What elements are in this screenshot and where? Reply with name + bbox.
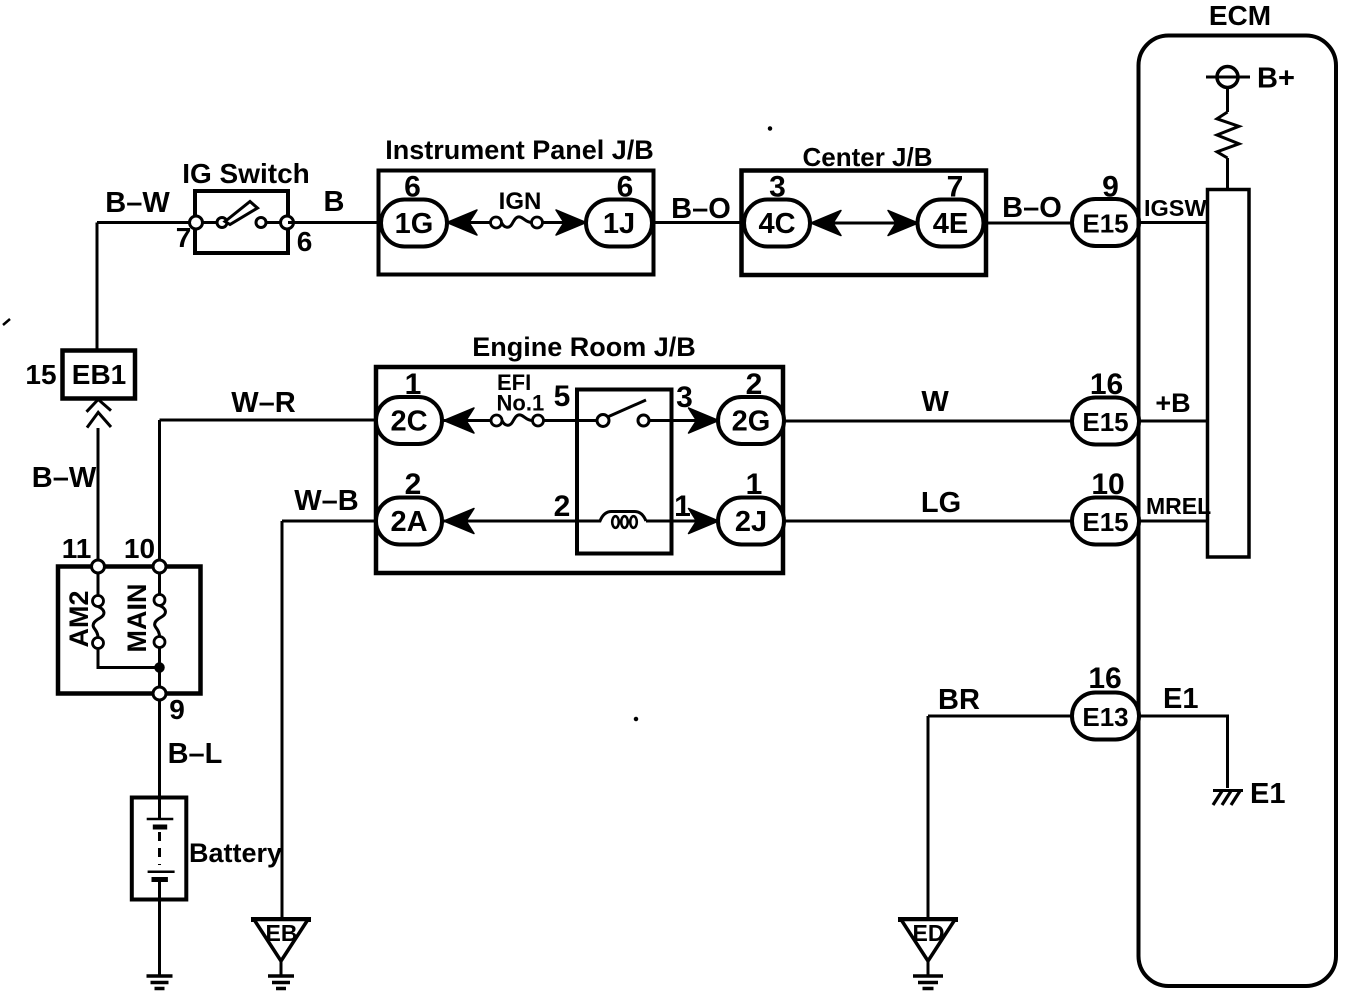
wire W-R horizontal [160, 419, 383, 422]
svg-text:LG: LG [921, 487, 961, 519]
ground below ED [913, 976, 943, 989]
wire 1G to IGN fuse [446, 221, 492, 224]
relay coil [577, 512, 646, 528]
wire fuse to relay [544, 419, 598, 422]
label 15 [25, 359, 56, 390]
relay switch contact left [597, 415, 609, 427]
wire 4C to 4E [808, 222, 920, 225]
wire B-O from Center J/B to E15 [985, 222, 1074, 225]
label B-O [671, 193, 731, 225]
label Engine Room J/B [472, 332, 696, 362]
junction dot [155, 663, 164, 672]
IG switch terminal 7 node [190, 216, 203, 229]
svg-text:BR: BR [938, 684, 980, 716]
label pin 16 [1090, 368, 1123, 401]
svg-text:B–W: B–W [105, 187, 170, 219]
IG switch contact right [256, 218, 266, 228]
label pin 1 above 2J [746, 468, 763, 501]
wire vertical from B-W corner down to EB1 [96, 223, 99, 351]
label pin 10 [1091, 468, 1124, 501]
IG switch box [195, 191, 288, 253]
label Instrument Panel J/B [385, 135, 654, 165]
svg-text:2J: 2J [735, 506, 767, 538]
fuse EFI No.1 [491, 415, 544, 426]
label pin 7 above 4E [947, 171, 964, 204]
wire W to E15 [783, 420, 1074, 423]
wire +B pin [1139, 420, 1208, 423]
wire B-W horizontal to IG switch [97, 221, 196, 224]
connector 2C [376, 397, 492, 444]
wire MREL pin [1139, 520, 1208, 523]
Engine Room J/B box [376, 367, 783, 573]
label LG [921, 487, 961, 519]
node 11 [92, 560, 105, 573]
svg-text:10: 10 [1091, 468, 1124, 501]
svg-text:9: 9 [169, 694, 185, 725]
wire through IG switch [196, 221, 288, 224]
label BR [938, 684, 980, 716]
connector EB1 [63, 351, 136, 399]
svg-text:No.1: No.1 [497, 391, 545, 416]
svg-text:4E: 4E [933, 208, 968, 240]
svg-text:6: 6 [617, 171, 634, 204]
IG switch terminal 6 node [281, 216, 294, 229]
connector 2G [718, 397, 784, 444]
wire battery to ground [158, 880, 161, 976]
wire node 9 to battery [158, 700, 161, 798]
battery terminal B+ [1206, 67, 1250, 88]
wire resistor to pin strip [1226, 158, 1229, 190]
svg-text:B–L: B–L [168, 738, 223, 770]
label 10 [124, 533, 155, 564]
label B [324, 186, 345, 218]
svg-text:E15: E15 [1082, 507, 1128, 537]
wire IGSW pin [1138, 221, 1208, 224]
svg-text:1: 1 [674, 490, 691, 523]
label 1 at relay [674, 490, 691, 523]
svg-text:W–B: W–B [294, 485, 358, 517]
svg-text:6: 6 [297, 226, 313, 257]
fuse AM2 [93, 573, 156, 668]
svg-text:Instrument Panel J/B: Instrument Panel J/B [385, 135, 654, 165]
scan speck bottom middle [635, 718, 638, 721]
ground ED triangle [898, 920, 958, 962]
svg-text:MREL: MREL [1146, 493, 1211, 519]
svg-text:1: 1 [746, 468, 763, 501]
connector E15 pin 10 [1072, 498, 1139, 545]
arrow into 2J [689, 509, 719, 534]
wire B-O from Instrument Panel to Center J/B [653, 221, 742, 224]
connector E15 pin 9 [1072, 199, 1139, 246]
svg-text:W: W [921, 386, 949, 418]
label IGN [499, 188, 542, 215]
svg-text:16: 16 [1088, 662, 1121, 695]
label pin 6 above 1J [617, 171, 634, 204]
svg-text:E1: E1 [1250, 778, 1285, 810]
svg-text:4C: 4C [758, 208, 795, 240]
svg-text:7: 7 [947, 171, 964, 204]
svg-text:7: 7 [176, 222, 192, 253]
wire 2A to relay [441, 520, 577, 523]
fuse MAIN [154, 573, 165, 687]
connector 4C [744, 200, 810, 247]
label B-L [168, 738, 223, 770]
svg-text:5: 5 [554, 380, 571, 413]
svg-text:IGSW: IGSW [1144, 195, 1207, 221]
svg-text:6: 6 [404, 171, 421, 204]
resistor inside ECM [1217, 112, 1239, 158]
label W [921, 386, 949, 418]
arrow into 1J [556, 210, 586, 235]
wire E1 inside ECM [1139, 716, 1228, 788]
svg-text:IG Switch: IG Switch [182, 158, 310, 189]
label pin 9 [1102, 171, 1119, 204]
svg-text:AM2: AM2 [64, 590, 94, 647]
label EFI [497, 370, 531, 395]
label pin 3 above 4C [769, 171, 786, 204]
label MREL [1146, 493, 1211, 519]
label IG Switch [182, 158, 310, 189]
label W-R [231, 387, 296, 419]
wire IGN fuse to 1J [542, 221, 588, 224]
svg-text:2: 2 [746, 368, 763, 401]
connector 2A [376, 498, 442, 545]
scan speck top middle [769, 127, 772, 130]
svg-text:E1: E1 [1163, 683, 1198, 715]
arrow into 2C [444, 408, 474, 433]
node 9 [153, 687, 166, 700]
label B-W [32, 462, 97, 494]
svg-text:Battery: Battery [189, 838, 282, 868]
wire BR vertical to ED ground [927, 716, 930, 920]
svg-text:1J: 1J [603, 208, 635, 240]
ground EB triangle [251, 920, 311, 962]
svg-text:E13: E13 [1082, 702, 1128, 732]
svg-text:+B: +B [1155, 388, 1190, 418]
relay box [577, 390, 672, 554]
label pin 6 [297, 226, 313, 257]
label B-W [105, 187, 170, 219]
svg-text:E15: E15 [1082, 209, 1128, 239]
connector 4E [918, 200, 984, 247]
label pin 7 [176, 222, 192, 253]
Center J/B box [742, 171, 987, 276]
label pin 6 above 1G [404, 171, 421, 204]
svg-text:B–O: B–O [671, 193, 731, 225]
svg-text:B+: B+ [1257, 63, 1295, 95]
svg-text:16: 16 [1090, 368, 1123, 401]
svg-text:E15: E15 [1082, 407, 1128, 437]
svg-text:B–W: B–W [32, 462, 97, 494]
svg-text:IGN: IGN [499, 188, 542, 215]
label E1 [1163, 683, 1198, 715]
wire W-B vertical down to EB ground [281, 521, 284, 920]
svg-text:MAIN: MAIN [122, 584, 152, 653]
ground below battery [147, 976, 173, 989]
arrow into 1G [447, 210, 477, 235]
EB1 chevron arrows [87, 399, 112, 427]
svg-text:EB: EB [266, 920, 298, 946]
wire W-B horizontal [282, 520, 382, 523]
svg-text:9: 9 [1102, 171, 1119, 204]
wire BR from E13 [928, 715, 1074, 718]
label Center J/B [802, 142, 932, 172]
node 10 [153, 560, 166, 573]
svg-text:1G: 1G [395, 208, 434, 240]
arrow into 4C [811, 211, 841, 236]
battery box [132, 798, 187, 900]
label ECM [1209, 0, 1271, 31]
arrow into 2G [689, 408, 719, 433]
svg-text:W–R: W–R [231, 387, 296, 419]
connector 1G [381, 200, 447, 247]
svg-text:ECM: ECM [1209, 0, 1271, 31]
connector 1J [586, 200, 652, 247]
wire W-R vertical down to node 10 [158, 420, 161, 567]
svg-text:3: 3 [769, 171, 786, 204]
connector E15 pin 16 [1072, 398, 1139, 445]
svg-text:B–O: B–O [1002, 192, 1062, 224]
svg-text:15: 15 [25, 359, 56, 390]
wire ED to ground [927, 961, 930, 975]
label AM2 [64, 590, 94, 647]
svg-text:B: B [324, 186, 345, 218]
label E1 at ground [1250, 778, 1285, 810]
svg-text:1: 1 [405, 368, 422, 401]
wire LG to E15 [783, 520, 1074, 523]
svg-text:ED: ED [913, 920, 945, 946]
label No.1 [497, 391, 545, 416]
label pin 1 above 2C [405, 368, 422, 401]
label 9 [169, 694, 185, 725]
svg-text:2A: 2A [390, 506, 427, 538]
battery cells [147, 798, 175, 880]
label 5 [554, 380, 571, 413]
scan speck left edge [3, 319, 10, 325]
label Battery [189, 838, 282, 868]
ECM box [1139, 36, 1337, 987]
label pin 2 above 2A [405, 468, 422, 501]
svg-text:2: 2 [405, 468, 422, 501]
label +B [1155, 388, 1190, 418]
arrow into 4E [888, 211, 918, 236]
svg-text:2G: 2G [732, 406, 771, 438]
svg-text:2: 2 [554, 490, 571, 523]
relay switch contact right [638, 415, 649, 426]
connector E13 pin 16 [1072, 693, 1139, 740]
svg-text:2C: 2C [390, 406, 427, 438]
label MAIN [122, 584, 152, 653]
wire coil to 2J [646, 520, 719, 523]
label 11 [62, 533, 92, 564]
wire B-W vertical to node 11 [97, 428, 100, 567]
wire relay to 2G [650, 419, 720, 422]
ECM pin strip [1208, 190, 1250, 558]
wire EB to ground [280, 961, 283, 975]
relay switch lever [608, 400, 647, 417]
connector 2J [718, 498, 784, 545]
fuse block AM2/MAIN box [58, 567, 201, 694]
arrow into 2A [444, 509, 474, 534]
svg-text:EB1: EB1 [72, 359, 126, 390]
label pin 16 [1088, 662, 1121, 695]
label IGSW [1144, 195, 1207, 221]
label pin 2 above 2G [746, 368, 763, 401]
wire B+ to resistor [1226, 88, 1229, 113]
IG switch contact left [217, 218, 227, 228]
svg-text:10: 10 [124, 533, 155, 564]
label 3 [676, 381, 693, 414]
ground below EB [268, 976, 294, 989]
fuse IGN [491, 217, 543, 228]
IG switch lever [225, 202, 258, 225]
label 2 at relay [554, 490, 571, 523]
svg-text:Engine Room J/B: Engine Room J/B [472, 332, 696, 362]
label W-B [294, 485, 358, 517]
wire B from IG switch to Instrument Panel J/B [288, 221, 380, 224]
svg-text:Center J/B: Center J/B [802, 142, 932, 172]
chassis ground E1 [1213, 791, 1243, 806]
label B-O [1002, 192, 1062, 224]
svg-text:11: 11 [62, 533, 92, 564]
label B+ [1257, 63, 1295, 95]
Instrument Panel J/B box [379, 171, 654, 275]
